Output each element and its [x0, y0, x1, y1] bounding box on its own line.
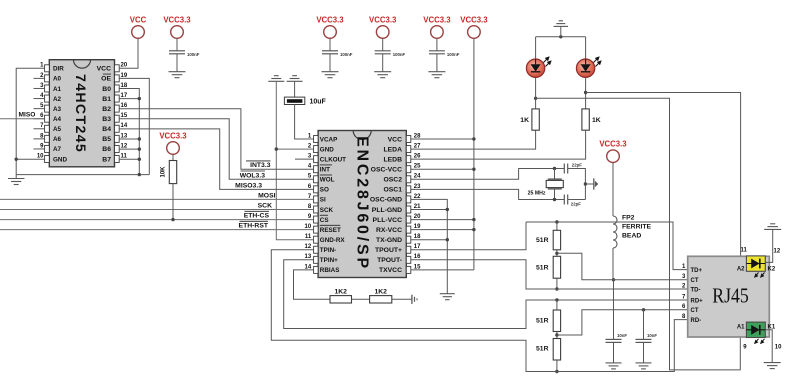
svg-text:17: 17 [414, 244, 421, 250]
crystal X1 25 MHz [528, 169, 564, 200]
wire U1 DIR to ground rail [16, 68, 44, 174]
J1 pin 8 RD- [682, 314, 701, 324]
svg-text:A6: A6 [53, 136, 62, 143]
wire 51R d to bottom rail [556, 360, 558, 372]
svg-text:51R: 51R [536, 237, 549, 244]
wire K2 to inverted ground [765, 229, 772, 262]
J1 pin 2 TD- [682, 283, 701, 293]
svg-text:100nF: 100nF [447, 52, 460, 57]
wire U1 B0/B1/B5/B6/B7 ground riser [119, 89, 139, 175]
svg-text:PLL-VCC: PLL-VCC [373, 217, 403, 224]
svg-text:ETH-CS: ETH-CS [244, 213, 270, 220]
wire VCC3.3 to capacitor [176, 38, 178, 51]
svg-text:TPOUT-: TPOUT- [377, 257, 402, 264]
U1 pin 6 A4 [34, 113, 62, 123]
junction B6 [138, 147, 141, 150]
svg-text:1K2: 1K2 [374, 289, 387, 296]
svg-text:VCC3.3: VCC3.3 [460, 16, 488, 25]
svg-text:A7: A7 [53, 146, 62, 153]
J1 pin 1 TD+ [682, 264, 703, 274]
svg-text:WOL3.3: WOL3.3 [240, 172, 266, 179]
wire CT tap (RD) [557, 310, 688, 335]
junction B7 [138, 158, 141, 161]
svg-text:1: 1 [40, 63, 44, 69]
inverted ground (x=276) [268, 76, 284, 82]
svg-text:LEDB: LEDB [383, 156, 402, 163]
U1 pin 18 B0 [102, 83, 128, 93]
wire capacitor 3 to ground [436, 54, 438, 72]
U1 pin 19 OE [101, 73, 128, 83]
svg-text:INT: INT [320, 167, 330, 174]
resistor 51R (d) [536, 339, 561, 361]
svg-text:8: 8 [308, 204, 312, 210]
IC U1 74HCT245 body [49, 60, 114, 167]
junction ground rail [138, 173, 141, 176]
wire LEDB net to RJ45 LED A2 [586, 93, 747, 263]
svg-text:13: 13 [121, 133, 128, 139]
svg-text:RESET: RESET [320, 227, 341, 234]
svg-text:20: 20 [121, 63, 128, 69]
svg-text:10nF: 10nF [647, 333, 657, 338]
power symbol VCC3.3 (decoupler 1) [316, 16, 344, 39]
node MISO [0, 112, 45, 119]
J1 pin 7 RD+ [682, 294, 703, 304]
svg-text:51R: 51R [536, 346, 549, 353]
svg-text:1K: 1K [592, 117, 601, 124]
LED yellow (RJ45 A2/K2) [737, 256, 776, 277]
svg-text:VCC3.3: VCC3.3 [369, 16, 397, 25]
svg-text:RJ45: RJ45 [712, 285, 749, 307]
U2 pin 5 WOL [308, 174, 335, 184]
U2 pin 10 RESET [305, 224, 341, 234]
svg-text:VCC: VCC [388, 136, 402, 143]
ground (x=16) [8, 175, 25, 185]
svg-text:ENC28J60/SP: ENC28J60/SP [353, 136, 370, 271]
svg-text:OE: OE [101, 76, 111, 83]
power symbol VCC3.3 (decoupler 3) [423, 16, 451, 39]
svg-text:SI: SI [320, 197, 326, 204]
svg-text:OSC2: OSC2 [383, 177, 402, 184]
U1 pin 11 B7 [102, 153, 127, 163]
U2 pin 16 TPOUT- [377, 254, 421, 264]
U2 pin 13 TPIN+ [305, 254, 339, 264]
wire U2 pin 16 TPOUT- / TD- rail [411, 260, 688, 289]
wire U2 pin 18 TX-GND [411, 239, 448, 241]
wire LED D1 bottom [535, 77, 537, 98]
svg-text:OSC-GND: OSC-GND [370, 197, 402, 204]
svg-text:SCK: SCK [320, 207, 334, 214]
wire capacitor 1 to ground [329, 54, 331, 72]
wire U1 OE to ground rail [119, 78, 149, 174]
U2 pin 24 OSC2 [383, 174, 421, 184]
svg-text:TPIN-: TPIN- [320, 247, 336, 254]
U1 pin 2 A0 [34, 73, 62, 83]
wire U1 B6 stub [119, 148, 139, 150]
wire U2 pin 21 PLL-GND [411, 209, 448, 211]
svg-text:10nF: 10nF [617, 333, 627, 338]
J1 pin 3 CT [682, 274, 699, 284]
svg-text:22pF: 22pF [572, 162, 582, 167]
svg-text:17: 17 [121, 93, 128, 99]
svg-text:B3: B3 [102, 116, 111, 123]
J1 pin 6 CT [682, 304, 699, 314]
wire VCC3.3 rail vertical [473, 38, 475, 270]
wire rail to 51R a [556, 222, 558, 230]
U2 pin 23 OSC1 [383, 184, 421, 194]
svg-text:15: 15 [121, 113, 128, 119]
svg-text:VCC3.3: VCC3.3 [163, 16, 191, 25]
svg-text:11: 11 [740, 247, 747, 253]
svg-text:GND: GND [53, 156, 67, 163]
U2 pin 28 VCC [388, 133, 421, 143]
svg-text:OSC-VCC: OSC-VCC [371, 167, 402, 174]
svg-text:10K: 10K [161, 166, 167, 178]
LED D2 (red) [576, 57, 600, 77]
wire VCC3.3 to capacitor 3 [436, 38, 438, 51]
wire VCC3.3 to capacitor 1 [329, 38, 331, 51]
svg-text:10: 10 [775, 344, 782, 350]
U2 pin 1 VCAP [308, 133, 337, 143]
svg-text:19: 19 [121, 73, 128, 79]
resistor R? 1K (right) [582, 109, 601, 130]
U1 pin 7 A5 [34, 123, 62, 133]
svg-text:VCC3.3: VCC3.3 [316, 16, 344, 25]
inverted ground (K2) [764, 224, 781, 230]
wire capacitor to ground [176, 54, 178, 72]
U1 pin 16 B2 [102, 103, 128, 113]
ground (10nF 2) [636, 363, 652, 369]
U1 pin 15 B3 [102, 113, 128, 123]
svg-text:OSC1: OSC1 [383, 187, 402, 194]
svg-text:6: 6 [308, 184, 312, 190]
U1 pin 17 B1 [102, 93, 128, 103]
wire net ETH-RST [0, 221, 314, 229]
junction (557,253.3) [555, 252, 558, 255]
wire CT tap (TD) [557, 253, 688, 279]
wire net MISO3.3 (U1 B4 to U2 SO) [119, 129, 313, 190]
svg-text:12: 12 [774, 248, 781, 254]
U2 pin 27 LEDA [383, 143, 421, 153]
LED D1 (red) [526, 57, 550, 77]
junction (557,289) [555, 287, 558, 290]
wire 1K right to U2 pin 26 LEDB [411, 130, 586, 159]
capacitor 10nF (TD CT) [606, 280, 628, 343]
wire 51R a to tap [556, 250, 558, 256]
svg-text:VCC: VCC [97, 66, 111, 73]
wire K1 to ground [765, 330, 772, 363]
svg-text:B4: B4 [102, 126, 111, 133]
junction (586,92.5) [584, 91, 587, 94]
junction (613.5,280) [612, 278, 615, 281]
power symbol VCC3.3 (decoupler 2) [369, 16, 397, 39]
U2 pin 11 GND-RX [305, 234, 346, 244]
capacitor 10uF (VCAP) [284, 97, 326, 105]
wire net INT3.3 (U1 B2 to U2 INT) [119, 109, 313, 170]
power symbol VCC3.3 (rail) [460, 16, 488, 39]
ground (10nF 1) [606, 363, 622, 369]
svg-text:B6: B6 [102, 146, 111, 153]
svg-text:16: 16 [121, 103, 128, 109]
svg-text:TPOUT+: TPOUT+ [375, 247, 402, 254]
U2 pin 4 INT [308, 164, 332, 174]
U2 pin 2 GND [308, 143, 334, 153]
wire U1 B5 stub [119, 138, 139, 140]
svg-text:ETH-RST: ETH-RST [239, 223, 269, 230]
U1 pin 8 A6 [34, 133, 62, 143]
wire U2 pin 15 TXVCC [411, 269, 474, 271]
junction (643.5,310) [642, 308, 645, 311]
ground (below U2) [440, 294, 455, 300]
svg-text:B7: B7 [102, 156, 111, 163]
junction (557,371.5) [555, 370, 558, 373]
wire U1 GND pin 10 [16, 158, 44, 160]
svg-text:WOL: WOL [320, 177, 335, 184]
svg-text:FP2: FP2 [622, 215, 635, 222]
svg-text:1K: 1K [520, 117, 529, 124]
svg-text:9: 9 [308, 214, 312, 220]
svg-text:20: 20 [414, 214, 421, 220]
svg-text:A2: A2 [737, 266, 745, 272]
power symbol VCC3.3 (ferrite) [599, 140, 627, 163]
svg-text:CT: CT [691, 308, 699, 314]
svg-text:B1: B1 [102, 96, 111, 103]
capacitor 100nF (x=177) [169, 51, 200, 57]
wire U2 pin 12 TPIN- to RD- [271, 250, 687, 372]
power symbol VCC3.3 (10K pull-up) [159, 132, 187, 155]
ground (decoupler 1) [322, 72, 339, 78]
U2 pin 9 CS [308, 214, 329, 224]
wire GND net: inverted ground to U2 pin2/pin11 [276, 81, 313, 239]
svg-text:51R: 51R [536, 265, 549, 272]
wire VCC3.3 to ferrite [612, 163, 614, 217]
wire U2 pin 14 RBIAS [294, 270, 331, 299]
svg-text:B5: B5 [102, 136, 111, 143]
connector J1 RJ45 body [688, 256, 770, 337]
U2 pin 15 TXVCC [379, 264, 421, 274]
wire capacitor 2 to ground [382, 54, 384, 72]
svg-text:TPIN+: TPIN+ [320, 257, 338, 264]
resistor 10K [161, 161, 177, 184]
svg-text:12: 12 [121, 143, 128, 149]
svg-text:9: 9 [743, 344, 747, 350]
capacitor 10nF (RD CT) [636, 310, 658, 343]
svg-text:5: 5 [308, 174, 312, 180]
wire between 1K2s [352, 298, 370, 300]
svg-text:TD+: TD+ [691, 268, 703, 274]
svg-text:TD-: TD- [691, 287, 701, 293]
wire net SCK [0, 203, 314, 210]
svg-text:A4: A4 [53, 116, 62, 123]
U2 pin 17 TPOUT+ [375, 244, 421, 254]
junction (474,230) [472, 228, 475, 231]
wire TD+ rail [526, 222, 688, 270]
capacitor 22pF (bottom) [564, 195, 581, 207]
svg-text:VCC3.3: VCC3.3 [423, 16, 451, 25]
svg-text:11: 11 [121, 153, 128, 159]
junction (447,210) [446, 208, 449, 211]
U1 pin 4 A2 [34, 93, 62, 103]
resistor 51R (c) [536, 310, 561, 332]
wire LED D2 top [585, 37, 587, 59]
wire net WOL3.3 (U1 B3 to U2 WOL) [119, 119, 313, 180]
svg-text:100nF: 100nF [187, 52, 200, 57]
ground (decoupler 3) [428, 72, 445, 78]
inverted ground (x=295) [287, 76, 303, 82]
U2 pin 18 TX-GND [376, 234, 421, 244]
U1 pin 3 A1 [34, 83, 62, 93]
svg-text:100nF: 100nF [393, 52, 406, 57]
wire net MOSI [0, 192, 314, 199]
svg-text:VCC: VCC [130, 16, 147, 25]
wire VCC3.3 to capacitor 2 [382, 38, 384, 51]
junction (16,159) [15, 158, 18, 161]
wire VCC3.3 to 10K [172, 154, 174, 160]
junction (276,149) [275, 147, 278, 150]
U1 pin 9 A7 [34, 143, 62, 153]
capacitor 100nF (decoupler 2) [375, 51, 406, 57]
svg-text:10uF: 10uF [310, 99, 327, 106]
wire LED D2 bottom [585, 77, 587, 109]
capacitor 22pF (top) [564, 162, 582, 173]
ground (K1) [764, 363, 781, 369]
U1 pin 10 GND [37, 153, 68, 163]
wire 10nF 1 to ground [613, 342, 615, 363]
svg-text:51R: 51R [536, 318, 549, 325]
svg-text:VCAP: VCAP [320, 136, 338, 143]
wire ferrite to CT (TD) [612, 248, 614, 280]
svg-text:FERRITE: FERRITE [622, 224, 652, 231]
junction (474,220) [472, 218, 475, 221]
capacitor 100nF (decoupler 1) [322, 51, 353, 57]
svg-text:100nF: 100nF [340, 52, 353, 57]
wire U2 pin 13 TPIN+ [284, 260, 688, 329]
resistor 51R (a) [536, 230, 561, 250]
svg-text:MISO3.3: MISO3.3 [235, 182, 262, 189]
wire 1K2 to ground [392, 298, 412, 300]
junction (554.5,168.5) [553, 167, 556, 170]
junction (557,222) [555, 220, 558, 223]
junction (536,98) [534, 97, 537, 100]
svg-text:23: 23 [414, 184, 421, 190]
svg-text:14: 14 [121, 123, 128, 129]
svg-text:A3: A3 [53, 106, 62, 113]
svg-text:BEAD: BEAD [622, 233, 641, 240]
svg-text:RD+: RD+ [691, 298, 704, 304]
wire U2 pin 20 PLL-VCC [411, 219, 474, 221]
resistor 1K2 (second) [370, 289, 392, 304]
U2 pin 25 OSC-VCC [371, 164, 421, 174]
U2 pin 21 PLL-GND [372, 204, 421, 214]
svg-text:RBIAS: RBIAS [320, 267, 340, 274]
svg-text:MOSI: MOSI [258, 192, 275, 199]
junction (554.5,199.5) [553, 198, 556, 201]
junction B5 [138, 137, 141, 140]
resistor 1K2 (first) [330, 289, 352, 304]
svg-text:B2: B2 [102, 106, 111, 113]
junction (561,37) [559, 35, 562, 38]
ground (x=177) [169, 72, 186, 78]
junction (557,300) [555, 298, 558, 301]
svg-text:21: 21 [414, 204, 421, 210]
wire 51R c to tap [556, 332, 558, 339]
U2 pin 12 TPIN- [305, 244, 337, 254]
svg-text:K2: K2 [768, 266, 776, 272]
U1 pin 1 DIR [40, 63, 64, 73]
wire net ETH-CS [0, 211, 314, 219]
wire inverted ground to 10uF [294, 81, 296, 97]
svg-text:22pF: 22pF [571, 202, 581, 207]
capacitor 100nF (decoupler 3) [429, 51, 460, 57]
wire 10nF 2 to ground [643, 342, 645, 363]
svg-text:VCC3.3: VCC3.3 [159, 132, 187, 141]
junction (474,169) [472, 168, 475, 171]
svg-text:DIR: DIR [53, 66, 64, 73]
inverted ground (above LEDs) [554, 21, 569, 37]
wire U1 B7 stub [119, 158, 139, 160]
U1 pin 14 B4 [102, 123, 128, 133]
U1 pin 12 B6 [102, 143, 128, 153]
LED green (RJ45 A1/K1) [737, 322, 776, 343]
U2 pin 26 LEDB [383, 154, 421, 164]
U2 pin 22 OSC-GND [370, 194, 421, 204]
svg-text:CT: CT [691, 278, 699, 284]
svg-text:MISO: MISO [19, 112, 36, 119]
wire rail to 51R c [556, 300, 558, 310]
U2 pin 19 RX-VCC [376, 224, 421, 234]
wire U1 B1 stub [119, 98, 139, 100]
wire U2 pin 19 RX-VCC [411, 229, 474, 231]
svg-text:GND-RX: GND-RX [320, 237, 346, 244]
svg-text:18: 18 [121, 83, 128, 89]
U2 pin 3 CLKOUT [308, 154, 346, 164]
power symbol VCC [130, 16, 147, 39]
svg-text:A1: A1 [53, 86, 62, 93]
svg-text:A0: A0 [53, 76, 62, 83]
junction (557,335) [555, 333, 558, 336]
wire U2 pin 24 OSC2 to crystal top [411, 169, 565, 180]
wire LED tops rail [536, 36, 586, 38]
wire ground rail bottom [16, 174, 149, 176]
U2 pin 14 RBIAS [305, 264, 340, 274]
svg-text:TX-GND: TX-GND [376, 237, 402, 244]
svg-text:1K2: 1K2 [334, 289, 347, 296]
svg-text:2: 2 [308, 143, 312, 149]
U2 pin 20 PLL-VCC [373, 214, 422, 224]
inductor FP2 FERRITE BEAD [613, 215, 652, 249]
IC U2 ENC28J60/SP body [318, 131, 406, 278]
svg-text:A5: A5 [53, 126, 62, 133]
svg-text:27: 27 [414, 143, 421, 149]
svg-text:PLL-GND: PLL-GND [372, 207, 402, 214]
ground (sideways, crystal) [585, 178, 598, 189]
svg-text:10: 10 [37, 153, 44, 159]
svg-text:CS: CS [320, 217, 329, 224]
junction (474,139) [472, 137, 475, 140]
svg-text:24: 24 [414, 174, 421, 180]
wire LED D1 top [535, 37, 537, 59]
svg-text:12: 12 [305, 244, 312, 250]
wire 10K to ETH-CS [172, 184, 174, 220]
U2 pin 8 SCK [308, 204, 334, 214]
power symbol VCC3.3 (top-left) [163, 16, 191, 39]
wire LEDA net to RJ45 LED A1 [536, 98, 747, 370]
svg-text:RD-: RD- [691, 318, 702, 324]
wire 51R b to TD- rail [556, 278, 558, 289]
svg-text:B0: B0 [102, 86, 111, 93]
junction (585.4,184) [584, 182, 587, 185]
U1 pin 13 B5 [102, 133, 128, 143]
wire U2 pin 28 VCC [411, 138, 474, 140]
